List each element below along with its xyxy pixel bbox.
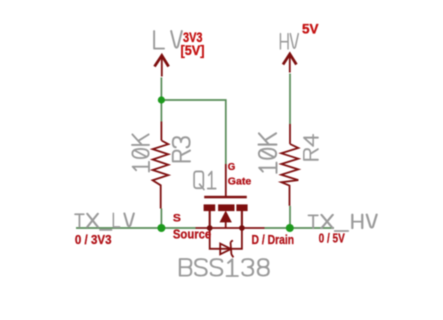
svg-text:[5V]: [5V] (181, 42, 205, 58)
svg-text:0 / 5V: 0 / 5V (319, 231, 345, 246)
svg-text:G: G (228, 161, 236, 173)
svg-text:Gate: Gate (228, 175, 252, 187)
svg-text:D / Drain: D / Drain (252, 232, 295, 247)
svg-text:0 / 3V3: 0 / 3V3 (75, 232, 112, 247)
svg-text:Source: Source (173, 228, 211, 242)
svg-text:5V: 5V (302, 21, 319, 37)
svg-text:S: S (173, 213, 181, 225)
